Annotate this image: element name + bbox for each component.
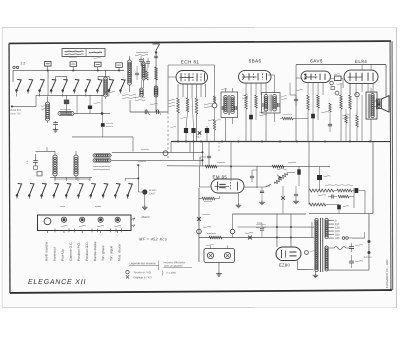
oscillator coil L9a [93,154,96,157]
wire x48 drop [47,70,49,95]
switch contact S2-6 [78,184,82,195]
capacitor C16 [328,123,332,125]
wire to jack [137,165,139,192]
panel ticks [54,228,56,232]
resistor R4 [195,98,198,114]
wire tone net top [296,142,298,187]
diode load resistor R9 [307,95,310,110]
wire lower bus [72,136,133,138]
dial lamps box [204,249,235,263]
labels T1 [221,88,227,91]
ground V5 [237,203,239,205]
capacitor marker x 20uF [197,217,201,221]
bus junction dots [47,69,49,71]
svg-text:V ± 10%: V ± 10% [166,272,176,275]
antenna [153,44,160,51]
oscillator coil L11 [128,60,132,64]
capacitor C31 (black) [297,169,300,175]
svg-text:Bande étalée: Bande étalée [93,241,97,261]
T4 voltage taps [328,220,334,222]
svg-text:Maroc: Maroc [141,215,150,219]
panel pointer marks [131,218,135,221]
capacitor C30 on drop [207,155,211,157]
label 47k [318,194,326,197]
T4 secondary winding bottom [325,246,328,249]
wire AGC line 2 [112,159,202,161]
capacitor C9 (T1) [234,106,236,110]
wire V5 top to AVC [225,171,231,173]
volume potentiometer P3 [274,172,288,185]
wire PSU left vert x199 [198,188,200,262]
resistor R24 [345,115,348,123]
resistor R20 antenna [155,67,158,80]
label pot 100k [325,184,353,187]
resistor R13 cathode EL84 [356,115,359,127]
svg-text:ECH 81: ECH 81 [181,59,200,64]
wire P.U. branch [11,105,13,107]
oscillator coil L9b [93,159,96,162]
potentiometer P2 screen [212,103,217,108]
svg-text:Réglage à 7 kΩ: Réglage à 7 kΩ [133,276,151,279]
wire lamps [209,246,211,249]
wire V5 right [244,186,257,188]
labels above panel [60,205,65,208]
labels T2 [281,95,287,98]
wire V1 left end [168,76,176,78]
wire T4 left top [311,222,313,238]
wire rail left drop [170,141,172,152]
switch contact S2-1 [17,184,21,195]
svg-text:1 2: 1 2 [21,61,26,65]
coil unit box L4 [116,63,123,68]
wire mains right [352,237,365,239]
wire T2 top riser [274,75,276,93]
capacitor C14 (black) [311,114,315,119]
mains selector plug [342,237,345,240]
tone pot P4 [317,175,322,180]
svg-text:Inverseur: Inverseur [53,246,57,261]
labels EL84 base [342,114,350,117]
wire right drop [384,65,386,142]
trimmer capacitor C28 [146,61,150,63]
ground under C1 [55,127,57,129]
coil unit box L1 [45,61,52,66]
diode plate dots V3 [305,74,307,76]
capacitor C21 150pF [331,195,333,199]
labels V1 values [168,99,175,102]
svg-text:Mus. douce: Mus. douce [117,244,121,261]
svg-text:Arrêt marche: Arrêt marche [44,242,48,261]
wire PSU box top [232,213,306,215]
wire row1 bottom bus [36,94,104,96]
svg-text:CADT: CADT [149,192,156,195]
capacitor C10 [249,115,253,120]
resistor R10 [317,95,320,108]
ground osc [140,88,144,92]
switch contact S2-5 [66,184,70,195]
wire volume drop [256,167,258,189]
wire heater 6V3 line [237,226,314,228]
switch contact S2-2 [29,184,33,195]
svg-text:6BA6: 6BA6 [249,59,262,64]
circle junction V3 [335,91,339,95]
wire bracket row1 b [98,76,109,80]
switch contact S1-10 [120,80,124,90]
svg-text:6AV6: 6AV6 [310,59,323,64]
filter capacitor C24 [349,246,354,248]
svg-text:Secteur: Secteur [363,256,371,259]
tiny box V3 [331,87,335,90]
trimmer block [64,100,69,104]
IF transformer T1 [221,92,238,118]
dashed drop x219 [218,142,220,153]
label Bob. PO [60,108,71,111]
wire gang link [189,141,191,152]
antenna winding L13 [154,86,158,90]
wire drop x202.5 [202,142,204,167]
component blob [101,123,105,127]
capacitor C29 [135,72,139,74]
wire V5 left [199,186,211,188]
wire V4 stubs [349,84,351,96]
wire tone right vert [353,188,355,208]
capacitor C11 (T2) [262,103,264,107]
wire T1 top [225,88,227,92]
label 50uF 2 [355,260,363,263]
T4 secondary winding top [325,219,328,222]
capacitor C15 coupling [335,76,342,81]
wire T1 bottom [225,118,227,142]
capacitor C2 (black) [88,105,92,109]
wire V1 pin stubs [177,84,179,97]
svg-text:Ton. aiguë: Ton. aiguë [109,246,113,261]
label 4nF [334,73,340,76]
power transformer T4 core [319,218,321,272]
wire bottom link [312,269,314,271]
switch contact S1-7 [86,80,90,90]
svg-text:Position G.O.: Position G.O. [85,241,89,261]
wire AVC long line [167,165,330,168]
pushbutton knob 1 [61,217,66,222]
label 50uF [355,244,363,247]
svg-text:Gamme O.C.: Gamme O.C. [69,241,73,261]
capacitor C17 [250,175,254,177]
svg-text:Légende des tensions: Légende des tensions [129,262,156,265]
capacitor C18 to ground [261,187,263,190]
resistor R25 (P2 lower) [213,120,216,130]
svg-text:EZ80: EZ80 [279,263,291,268]
svg-text:×47: ×47 [196,135,201,139]
resistor R7 (V2) [245,95,248,109]
wire V3 stubs [307,83,309,96]
capacitor C32 (black) [205,128,209,133]
switch contact S2-9 [115,184,119,195]
wire HT vertical right [368,214,370,271]
wire oscillator bottom [55,178,90,180]
resistor R21 [146,71,149,80]
wire V1 grid top [168,64,215,66]
svg-text:avec un appareil: avec un appareil [164,265,183,268]
svg-text:MF ≈ 452 Kcs: MF ≈ 452 Kcs [139,236,167,241]
svg-text:EL84: EL84 [355,59,367,64]
label 1,2k [207,232,216,235]
legend x symbol [126,275,129,278]
wire tuning line [130,111,168,113]
label 22k [323,175,330,178]
label 2x184 [138,160,146,163]
resistor R18 100k [309,203,326,206]
antenna coil L5 [46,102,50,106]
label 1nF [343,205,349,208]
switch contact S2-7 [91,184,95,195]
antenna coil L12 [142,62,145,65]
potentiometer P1 [163,151,168,156]
output transformer T3 [366,92,377,119]
svg-text:(vers TD): (vers TD) [11,112,21,115]
trimmer capacitor C4 [144,110,146,114]
lamp LP2 [224,252,230,258]
label bobines oscillateur [93,165,110,168]
voltage circle V2 [230,229,235,234]
switch contact S1-8 [97,80,101,90]
svg-text:245: 245 [335,237,340,240]
label Tr [106,122,113,125]
label 20uF [202,213,210,216]
tube V5 EM85 [211,179,244,193]
voltage circle 100V [197,229,202,234]
resistor R8 (V2) [255,95,258,108]
switch contact S1-2 [28,80,32,90]
resistor R19 1,2k [209,236,222,239]
label Cond 5nF [256,223,266,226]
wire V2 stubs [245,83,247,95]
label 20uF 2 [245,232,253,235]
wire cap tops [343,243,369,245]
dial lamp window [44,218,51,225]
wire top bus [13,69,124,71]
wire feedback box bottom [309,213,373,215]
wire heater rail [199,236,314,238]
x mark near rail [198,131,201,134]
switch contact S2-4 [54,184,58,195]
capacitor C23 5nF [261,223,263,229]
speaker LS [377,99,382,109]
wire speaker links [375,100,377,102]
ground lamps [218,263,220,272]
svg-text:Position P.O.: Position P.O. [77,242,81,261]
wire B+ top line [296,64,386,66]
pushbutton knob 2 [80,217,85,222]
pin circle EL84 [355,92,359,96]
T4 primary winding [315,219,318,222]
padder capacitor C3 [33,160,38,162]
wire row2 links [50,176,92,178]
label L5 [41,105,46,108]
resistor R5 [205,165,217,168]
label fuzz osc [135,96,145,99]
pushbutton knob 4 [115,217,120,222]
lamp LP1 [207,252,213,258]
capacitor C7 (black) [191,128,195,133]
wire V5 ground stub [237,194,239,204]
label C2 [94,102,101,105]
legend circle symbol [126,270,129,273]
wire AVC drop left [199,157,201,167]
resistor R6 [272,165,284,168]
resistor R2 (V1 cathode) [177,98,180,113]
schematic border frame [9,41,391,44]
label lamps [206,244,214,247]
label 4,7k [141,148,149,151]
labels above boxes [69,56,77,59]
switch contact S1-6 [74,80,78,90]
resistor R12 [349,95,352,109]
wire T2 bottom [265,113,267,142]
panel stubs [46,230,48,233]
label grid [337,83,343,86]
grid circle V3 [330,81,334,85]
oscillator coil L8 [74,155,78,159]
label voltage [203,226,211,229]
coil unit box L2 [70,62,77,67]
label P3 [277,168,287,171]
svg-text:Tension à 7 kΩ: Tension à 7 kΩ [133,271,150,274]
wire antenna lead [155,50,157,111]
wire drop x231 [230,142,232,182]
wire bracket row1 a [56,76,67,80]
svg-text:Pick-Up: Pick-Up [61,249,65,261]
capacitor C6 (black) [184,128,188,133]
capacitor C26 antenna [154,55,158,57]
resistor R11 grid [340,95,343,109]
padder capacitor C1 [53,122,58,124]
label values AVC [217,161,225,164]
resistor R23 detector [282,117,293,120]
pilot circle EZ80 [305,251,309,255]
tube V1 ECH81 [176,70,208,84]
wire switch drops [16,94,18,97]
switch contact S1-1 [17,80,21,90]
wire tone left vert [308,142,310,205]
tube V2 6BA6 [239,71,272,84]
coil unit box L3 [95,62,102,67]
svg-text:ELEGANCE XII – 1957: ELEGANCE XII – 1957 [385,259,389,288]
wire oscillator top links [36,150,56,152]
capacitor C8 (T1) [221,106,223,110]
resistor R3 [186,98,189,112]
junction dot mid [101,112,104,115]
labels V3 base [321,111,329,114]
label 1M [204,200,212,203]
capacitor C22 (black) [337,205,341,210]
pushbutton panel [37,215,131,231]
wire EZ80 bottom [296,261,298,270]
svg-text:Ton. grave: Ton. grave [101,245,105,261]
switch contact S1-3 [40,80,44,90]
switch contact S1-9 [109,80,113,90]
capacitor C12 (T2) [277,103,279,107]
resistor R15 [309,189,334,192]
trimmer capacitor C5 [156,110,158,114]
labels V2 base [259,111,267,114]
switch contact S2-10 [128,184,132,195]
tube V4 EL84 [344,70,378,84]
title box PHILIPS MODELE [62,48,105,56]
IF transformer T2 [262,93,281,114]
wire P3 wiper down [282,186,284,196]
switch detail box [37,171,42,176]
switch contact S1-4 [51,80,55,90]
tuning gang dashed link [167,112,169,160]
svg-text:EM 85: EM 85 [212,175,227,180]
wire drop x209 [208,142,210,167]
trimmer capacitor C27 [139,59,143,61]
oscillator coil L10 [104,77,108,81]
capacitor C13 [294,98,298,100]
capacitor C19 to ground [237,167,239,173]
antenna terminal circles [13,66,15,68]
wire EZ80 drops [276,214,278,247]
svg-text:}: } [162,270,164,276]
resistor R22 [329,103,332,112]
label coil texts [103,91,115,94]
wire AGC line 1 [112,151,202,153]
switch contact S2-8 [103,184,107,195]
wire x77 drop [76,95,78,114]
filter capacitor C25 [349,260,354,262]
label antenne [135,54,148,57]
ferrite rod coil L6 [58,112,62,116]
capacitor C20 (black) [355,188,359,193]
wire osc right links [111,154,112,156]
switch contact S2-3 [42,184,46,195]
resistor R17 47k [338,195,349,198]
ground under jack [144,195,146,205]
switch contact S1-5 [63,80,67,90]
oscillator coil L7 [53,155,57,159]
ground T4 [314,272,316,274]
HT rail [171,140,390,142]
wire T3 connections [370,88,372,92]
resistor R14 1M [202,197,215,200]
wire band wire [74,112,110,114]
pick-up jack J1 [138,191,142,193]
label 4-20pF [136,51,148,54]
tube V3 6AV6 [301,71,331,83]
heater squiggle [334,247,346,250]
resistor R16 [337,189,352,192]
tube V6 EZ80 [276,247,301,261]
pushbutton knob 3 [98,217,103,222]
svg-text:ELEGANCE XII: ELEGANCE XII [28,279,86,286]
capacitor marker x2 [248,236,252,240]
